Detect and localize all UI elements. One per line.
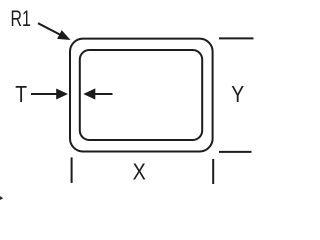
Y extension line bottom bbox=[219, 151, 252, 153]
leader line R1 bbox=[38, 23, 60, 34]
svg-text:R1: R1 bbox=[11, 8, 31, 32]
svg-text:T: T bbox=[15, 83, 27, 108]
Y extension line top bbox=[219, 37, 254, 39]
outer tube wall bbox=[70, 39, 213, 152]
T arrowhead (right-pointing) bbox=[56, 89, 68, 100]
inner tube wall bbox=[80, 50, 202, 140]
X extension line left bbox=[71, 157, 73, 183]
T arrowhead (left-pointing) bbox=[83, 88, 95, 99]
arrowhead R1 bbox=[57, 30, 70, 40]
edge speck bottom-left bbox=[0, 196, 3, 200]
svg-text:Y: Y bbox=[231, 83, 244, 108]
X extension line right bbox=[212, 159, 214, 184]
T arrow shaft (right-pointing) bbox=[31, 93, 58, 95]
svg-text:X: X bbox=[133, 159, 146, 185]
T arrow shaft (left-pointing) bbox=[95, 93, 113, 95]
